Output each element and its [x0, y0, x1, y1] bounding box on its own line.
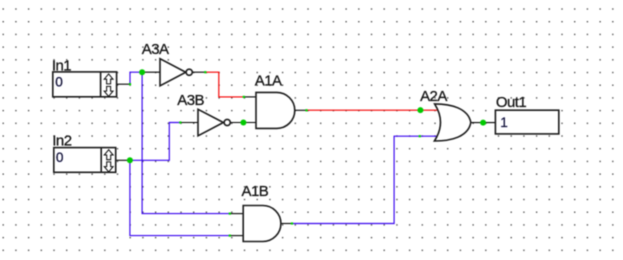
svg-text:A2A: A2A [420, 88, 447, 105]
svg-text:In2: In2 [52, 133, 71, 150]
svg-text:A3A: A3A [142, 41, 169, 58]
svg-text:A1A: A1A [255, 73, 282, 90]
svg-text:0: 0 [56, 150, 64, 165]
svg-text:A3B: A3B [177, 92, 204, 109]
svg-text:1: 1 [500, 115, 508, 130]
svg-text:A1B: A1B [242, 183, 269, 200]
svg-text:0: 0 [55, 74, 63, 89]
svg-text:Out1: Out1 [496, 94, 527, 111]
svg-text:In1: In1 [52, 57, 71, 74]
